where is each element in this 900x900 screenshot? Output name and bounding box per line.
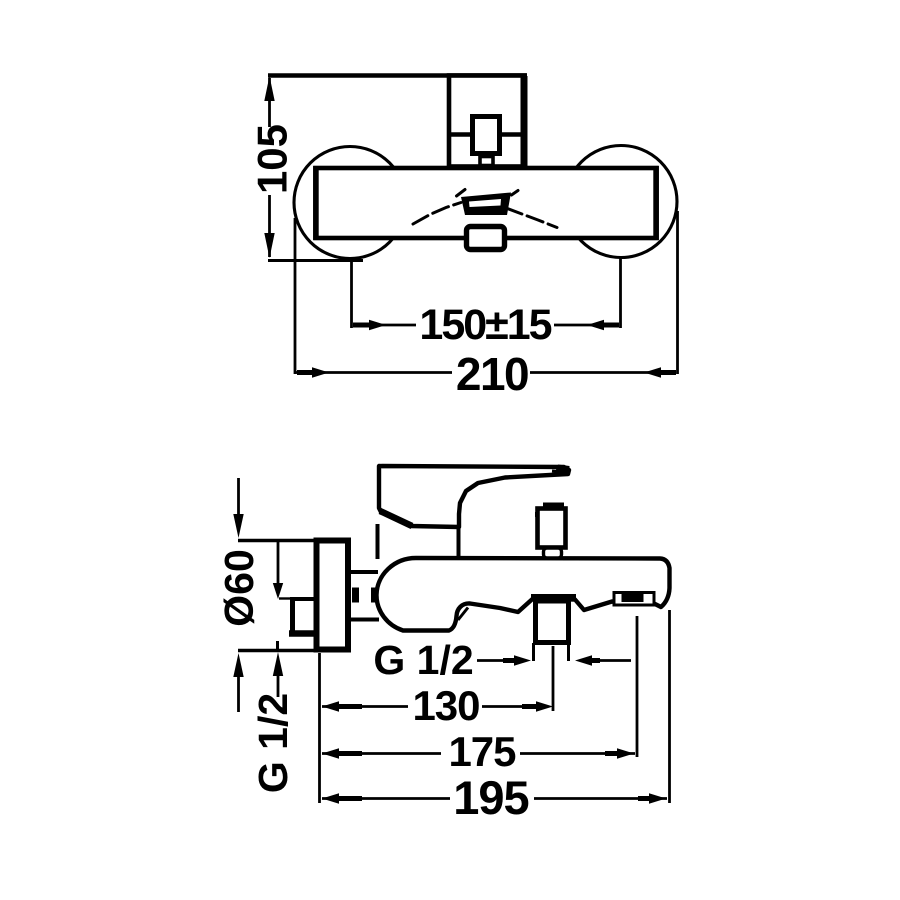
svg-text:Ø60: Ø60 [216, 549, 262, 627]
svg-text:150±15: 150±15 [419, 301, 551, 349]
svg-text:G 1/2: G 1/2 [373, 637, 473, 683]
svg-text:210: 210 [456, 348, 528, 400]
svg-text:130: 130 [412, 682, 479, 729]
svg-text:G 1/2: G 1/2 [250, 693, 296, 793]
svg-text:195: 195 [453, 771, 528, 824]
svg-text:175: 175 [448, 728, 516, 775]
svg-text:105: 105 [249, 124, 296, 194]
